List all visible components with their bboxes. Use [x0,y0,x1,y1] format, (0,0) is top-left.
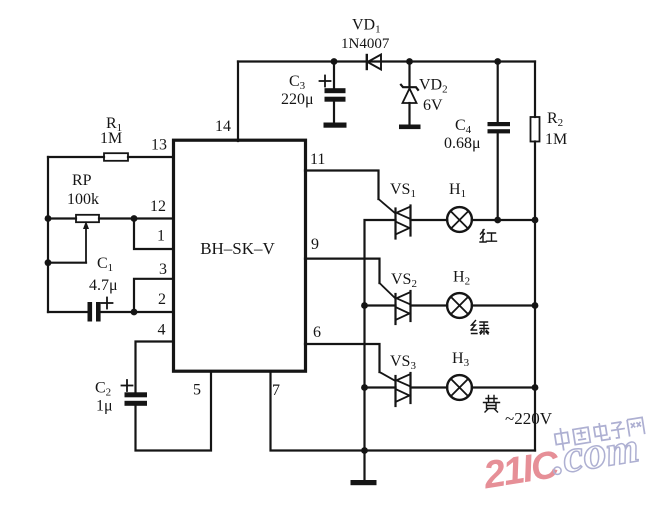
svg-text:13: 13 [151,137,167,154]
svg-text:~220V: ~220V [505,409,553,428]
svg-text:3: 3 [159,261,167,278]
wire pin 7 to bottom rail [271,372,536,451]
svg-text:6V: 6V [423,97,443,114]
wire pin 12 row [48,217,173,219]
svg-text:H3: H3 [452,350,470,369]
svg-text:RP: RP [72,172,92,189]
capacitor C4 [488,62,511,221]
potentiometer RP [76,215,99,263]
ground bar VD2 [399,125,421,130]
lamp H2 [447,293,472,318]
node dot rail H3 [532,384,539,391]
node dot VD2 top [406,58,413,65]
wire pin 9 to VS2 gate [305,259,396,299]
label huang yellow [484,396,500,413]
svg-text:4: 4 [158,322,166,339]
wire H1 to right rail [472,219,535,221]
wire pin 6 to VS3 gate [305,344,396,381]
svg-text:R2: R2 [547,110,563,129]
svg-text:VS2: VS2 [391,271,417,290]
node dot rail-RP [45,215,52,222]
svg-text:C3: C3 [289,73,306,92]
svg-text:5: 5 [193,382,201,399]
svg-text:220μ: 220μ [281,91,314,108]
ground bar C3 [324,123,347,128]
svg-text:BH–SK–V: BH–SK–V [200,239,275,258]
wire VS3 to lamp H3 [411,386,448,388]
node dot rail-wiper [45,259,52,266]
node dot rail H2 [532,302,539,309]
svg-text:1μ: 1μ [96,398,113,415]
op-amp U1 BH-SK-V IC box [174,140,306,371]
thyristor VS2 [396,291,411,324]
label C1 plus [102,298,113,309]
svg-text:11: 11 [310,151,325,168]
capacitor C2 [125,392,148,406]
wire pin 3 link down to pin 2 row [134,279,173,312]
node dot pin12/pin1 [131,215,138,222]
svg-text:1: 1 [157,228,165,245]
svg-text:4.7μ: 4.7μ [89,277,118,294]
wire H3 to right rail [472,386,535,388]
label C3 plus [320,76,331,87]
node dot VS3 common [361,384,368,391]
label C2 plus [122,380,133,391]
svg-text:H2: H2 [453,269,470,288]
ground [351,451,377,486]
wire C2 to pin 5 [136,372,212,451]
node dot C4 top [494,58,501,65]
capacitor C1 [88,302,101,322]
wire VS2 to lamp H2 [411,304,448,306]
svg-text:0.68μ: 0.68μ [444,135,481,152]
wire VS1 to lamp H1 [411,219,448,221]
node dot bottom rail junction [361,447,368,454]
diode VD1 [367,55,381,70]
svg-text:VS1: VS1 [390,181,416,200]
node dot VS2 common [361,302,368,309]
zener diode VD2 [401,62,418,125]
node dot C3 top [331,58,338,65]
resistor R2 [531,117,540,142]
svg-text:C4: C4 [455,117,472,136]
svg-text:7: 7 [272,382,280,399]
wire pin 2 / C1 row [48,311,173,313]
svg-text:100k: 100k [67,191,99,208]
svg-text:1N4007: 1N4007 [341,36,390,52]
svg-text:VD2: VD2 [419,77,448,96]
svg-text:VD1: VD1 [352,17,381,36]
wire pin 14 stub [237,62,239,142]
svg-text:9: 9 [311,236,319,253]
svg-text:VS3: VS3 [390,353,416,372]
thyristor VS1 [396,206,411,239]
svg-text:1M: 1M [545,131,567,148]
wire H2 to right rail [472,304,535,306]
wire RP wiper to left rail [48,262,86,264]
lamp H3 [447,375,472,400]
watermark .com [547,420,641,484]
wire VS3 left terminal [365,386,396,388]
wire pin 4 to C2 [136,342,173,394]
wire common line to bottom rail [363,388,365,451]
wire left rail [47,157,49,312]
wire VS2 left terminal [365,304,396,306]
svg-text:6: 6 [313,324,321,341]
lamp H1 [447,207,472,232]
svg-text:C1: C1 [97,255,113,274]
wire right rail [534,62,536,451]
svg-text:H1: H1 [449,181,466,200]
watermark zhongguo dianziwang [554,415,645,451]
svg-text:2: 2 [158,291,166,308]
svg-text:C2: C2 [95,380,111,399]
capacitor C3 [325,62,346,123]
node dot rail H1 [532,217,539,224]
wire top rail from pin14 to right rail [238,60,535,62]
wire common line VS2-VS3 [363,306,365,388]
node dot C4 bottom [494,217,501,224]
svg-text:1M: 1M [100,130,122,147]
label hong red [480,230,497,243]
label lv green [471,321,489,335]
resistor R1 [104,153,128,161]
wire pin 11 to VS1 gate [305,171,396,214]
svg-text:14: 14 [215,118,231,135]
node dot pin3/pin2 [131,309,138,316]
thyristor VS3 [396,373,411,406]
wire pin 13 row [48,156,173,158]
svg-text:12: 12 [150,198,166,215]
wire VS1 left terminal to common line [365,220,396,306]
wire pin 1 link from pin 12 node [134,219,173,250]
watermark 21IC [480,443,563,498]
